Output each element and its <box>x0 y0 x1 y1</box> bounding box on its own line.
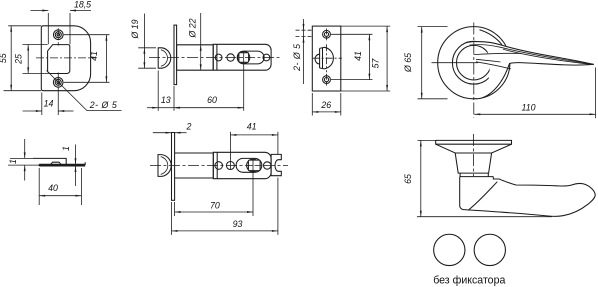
svg-text:13: 13 <box>161 95 171 105</box>
bolt head <box>158 48 171 68</box>
svg-text:2: 2 <box>185 121 191 131</box>
centerline latch 2 <box>150 165 288 167</box>
bolt head bevel 2 <box>161 157 168 175</box>
deadlatch plunger <box>315 54 320 64</box>
dim 18,5 <box>47 13 49 44</box>
rose outer circle <box>438 27 510 99</box>
dim 40 <box>38 168 40 205</box>
label 2-Ø5 leader <box>47 71 88 111</box>
faceplate outline <box>312 26 341 91</box>
case hole 1 <box>215 54 222 61</box>
fork tailpiece <box>271 154 281 175</box>
screw hole top <box>54 30 64 40</box>
dim 25 <box>23 44 48 46</box>
grip fillet curve <box>469 182 498 210</box>
rose v-centerline <box>473 23 475 118</box>
faceplate screw hole top <box>323 30 331 38</box>
case inner wall <box>216 44 218 70</box>
dim 1 left <box>10 157 33 159</box>
svg-text:26: 26 <box>320 100 331 110</box>
bolt head bevel line <box>161 50 168 66</box>
dim 13 <box>157 71 159 111</box>
bent lip <box>33 158 66 164</box>
label 2-Ø5 faceplate <box>303 19 305 84</box>
dim 14 <box>41 93 43 116</box>
spindle obround 2 <box>236 158 262 172</box>
latch cylinder 2 <box>175 153 214 178</box>
dim Ø65 <box>418 26 448 28</box>
faceplate screw hole bottom <box>323 76 331 84</box>
dim 2 <box>153 132 172 134</box>
bolt v-centerline <box>326 44 328 72</box>
svg-text:2- Ø 5: 2- Ø 5 <box>89 100 117 110</box>
dim 41 faceplate <box>331 33 373 35</box>
dim 110 <box>595 68 597 119</box>
lever blade top view <box>467 42 594 99</box>
spindle obround <box>237 51 264 64</box>
dim 57 faceplate <box>341 25 390 27</box>
neck ring inner <box>457 45 492 80</box>
handle v-centerline <box>472 134 474 176</box>
blade lower edge + skirt <box>476 63 593 99</box>
dim 26 faceplate <box>311 93 313 116</box>
rose h-centerline <box>432 62 479 64</box>
svg-text:93: 93 <box>233 219 243 229</box>
svg-text:без фиксатора: без фиксатора <box>433 274 505 286</box>
blade sweep lines <box>470 45 592 64</box>
bolt head 2 <box>158 155 171 177</box>
dim 1 right <box>75 145 77 165</box>
neck ring outer <box>452 41 495 84</box>
case hole 3 <box>263 54 270 61</box>
rose bell <box>455 153 491 173</box>
lever skirt upper arc <box>480 30 503 45</box>
dim 60 <box>243 52 245 111</box>
svg-text:1: 1 <box>61 146 71 151</box>
case 2 hole 2 <box>226 162 234 170</box>
rose bevel <box>436 144 512 153</box>
svg-text:41: 41 <box>353 51 363 61</box>
baseline ext <box>417 216 552 218</box>
bolt h-centerline <box>313 57 342 59</box>
svg-text:25: 25 <box>14 54 24 65</box>
latch case 2 <box>213 152 271 178</box>
dim 93 <box>171 202 173 235</box>
case inner wall 2 <box>216 152 218 178</box>
svg-text:65: 65 <box>403 174 413 184</box>
spindle hub circle <box>238 51 250 63</box>
lever post and grip side view <box>460 177 596 217</box>
vertical centerline holes lower <box>57 73 59 89</box>
dim 70 <box>174 202 176 216</box>
spindle square hole <box>239 53 249 63</box>
case 2 hole 1 <box>215 162 223 170</box>
dim Ø19 <box>138 47 156 49</box>
svg-text:41: 41 <box>89 51 99 61</box>
svg-text:Ø 65: Ø 65 <box>403 53 413 73</box>
spindle crosshair h 2 <box>248 164 262 166</box>
spindle square hole 2 <box>248 160 260 171</box>
dim 41 <box>64 34 110 36</box>
svg-text:55: 55 <box>0 53 8 63</box>
strike plate outline <box>41 26 90 91</box>
horizontal centerline plate <box>36 57 95 59</box>
svg-text:Ø 19: Ø 19 <box>130 19 140 39</box>
svg-text:41: 41 <box>247 121 257 131</box>
plate bar <box>39 162 85 166</box>
latch cutout <box>48 45 70 74</box>
case hole 2 <box>227 54 234 61</box>
bolt front view <box>320 47 334 69</box>
svg-text:Ø 22: Ø 22 <box>188 18 198 38</box>
latch cylinder <box>177 45 214 70</box>
variant circle 1 <box>434 234 465 265</box>
spindle hub circle 2 <box>247 159 260 172</box>
svg-text:57: 57 <box>371 58 381 69</box>
dimple bump <box>51 162 61 164</box>
svg-text:14: 14 <box>44 99 54 109</box>
collar <box>460 173 494 177</box>
variant circle 2 <box>474 234 505 265</box>
blade upper edge <box>467 42 594 65</box>
svg-text:1: 1 <box>8 159 18 164</box>
screw hole bottom <box>53 78 63 88</box>
top hole centerline <box>326 29 328 41</box>
latch case <box>213 44 271 70</box>
svg-text:70: 70 <box>210 200 220 210</box>
case 2 hole 3 <box>264 162 271 169</box>
svg-text:18,5: 18,5 <box>74 0 91 9</box>
faceplate edge-on 2 <box>172 133 175 201</box>
svg-text:110: 110 <box>521 103 535 113</box>
dim 41 assembly <box>229 132 231 170</box>
centerline latch <box>149 57 280 59</box>
vertical centerline holes <box>57 28 59 45</box>
dim Ø22 <box>200 13 202 45</box>
spindle crosshair h <box>238 57 250 59</box>
svg-text:40: 40 <box>48 183 58 193</box>
dim 55 <box>8 25 41 27</box>
svg-text:2- Ø 5: 2- Ø 5 <box>292 43 302 71</box>
faceplate edge-on <box>174 25 177 85</box>
dim 65 <box>418 139 436 141</box>
svg-text:60: 60 <box>207 95 217 105</box>
rose disk side <box>436 140 512 144</box>
bottom hole centerline <box>326 74 328 86</box>
